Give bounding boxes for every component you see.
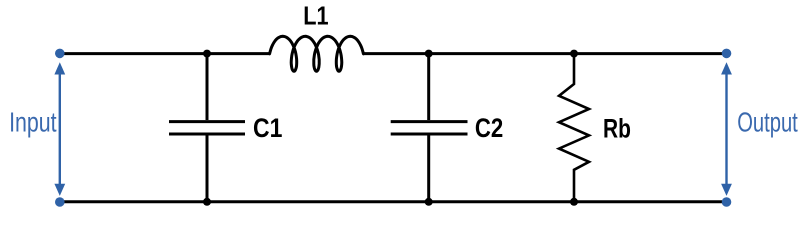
inductor L1: [270, 36, 364, 71]
junction node A top: [203, 50, 211, 58]
wire node A to inductor left lead: [207, 52, 270, 55]
svg-text:Rb: Rb: [603, 114, 631, 144]
junction node C bottom: [570, 198, 578, 206]
svg-text:Input: Input: [9, 107, 57, 138]
wire node B to node C: [429, 52, 574, 55]
input terminal dot bottom: [55, 197, 65, 207]
junction node B bottom: [425, 198, 433, 206]
junction node B top: [425, 50, 433, 58]
junction node A bottom: [203, 198, 211, 206]
wire top-left segment (input node to node A): [60, 52, 207, 55]
output terminal dot top: [722, 49, 732, 59]
wire inductor right lead to node B: [363, 52, 428, 55]
svg-text:C2: C2: [475, 113, 503, 143]
svg-text:L1: L1: [303, 0, 328, 30]
capacitor C1: [169, 54, 245, 202]
capacitor C2: [391, 54, 468, 202]
wire node C to output node: [574, 52, 722, 55]
input terminal dot top: [55, 49, 65, 59]
wire bottom rail: [60, 200, 722, 203]
svg-text:Output: Output: [737, 107, 798, 138]
svg-text:C1: C1: [253, 113, 282, 143]
output terminal dot bottom: [722, 197, 732, 207]
resistor Rb: [559, 54, 589, 202]
output arrow (double-headed): [721, 62, 732, 196]
junction node C top: [570, 50, 578, 58]
input arrow (double-headed): [54, 62, 65, 196]
